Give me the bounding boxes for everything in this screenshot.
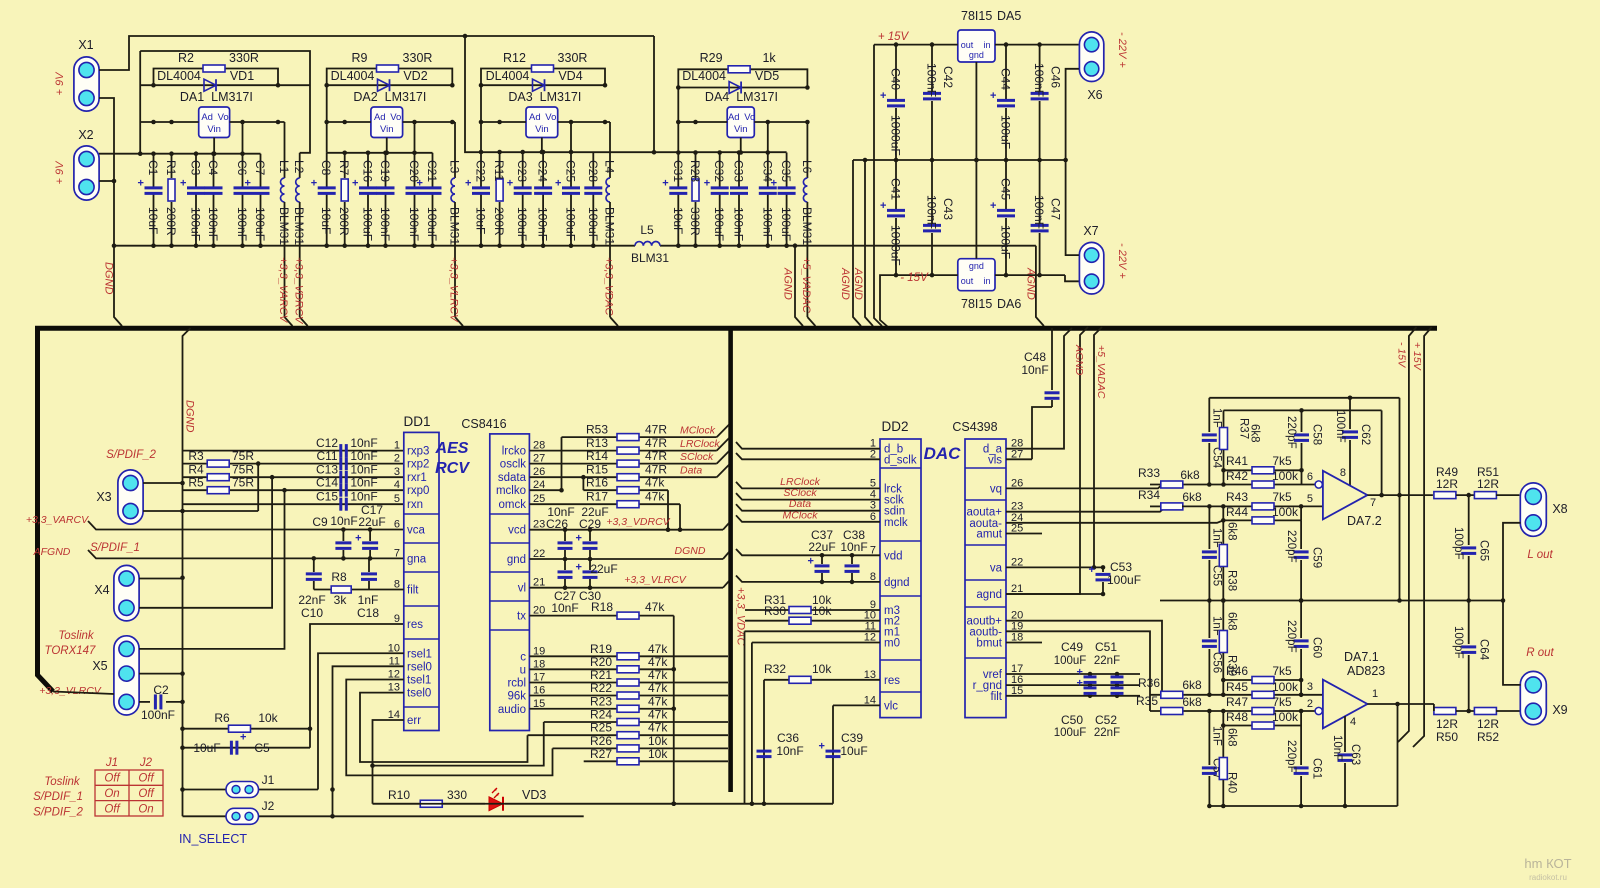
capacitor C32 xyxy=(704,153,729,249)
resistor R33 xyxy=(1138,466,1209,488)
svg-text:R29: R29 xyxy=(700,51,723,65)
svg-text:+5_VADAC: +5_VADAC xyxy=(800,257,812,313)
svg-text:R14: R14 xyxy=(586,449,608,463)
svg-text:C36: C36 xyxy=(777,731,799,745)
svg-text:100nF: 100nF xyxy=(760,207,774,241)
capacitor C41 xyxy=(880,160,905,275)
svg-text:mclko: mclko xyxy=(496,485,526,497)
capacitor C63 xyxy=(1331,716,1361,808)
capacitor C1 xyxy=(138,154,163,248)
svg-text:vl: vl xyxy=(518,583,526,595)
svg-text:Off: Off xyxy=(104,803,121,815)
svg-text:R21: R21 xyxy=(590,668,612,682)
capacitor C53 xyxy=(1089,560,1142,596)
svg-text:100uF: 100uF xyxy=(999,115,1013,149)
svg-text:X1: X1 xyxy=(78,38,93,52)
svg-text:m0: m0 xyxy=(884,638,900,650)
resistor R15 xyxy=(529,463,729,481)
svg-text:220pF: 220pF xyxy=(1285,416,1297,449)
wire +15V rail xyxy=(874,45,882,326)
svg-text:agnd: agnd xyxy=(976,589,1002,601)
svg-text:R18: R18 xyxy=(591,600,613,614)
svg-text:R13: R13 xyxy=(586,436,608,450)
wire SClock row xyxy=(736,487,880,500)
svg-text:R38: R38 xyxy=(1225,570,1237,591)
wire Vo drop DA1 xyxy=(240,120,245,154)
svg-text:aoutb-: aoutb- xyxy=(969,626,1002,638)
label +15V xyxy=(878,31,910,43)
svg-text:Off: Off xyxy=(138,773,155,785)
wire X4.1 xyxy=(139,578,183,580)
svg-text:100nF: 100nF xyxy=(536,207,550,241)
svg-text:R7: R7 xyxy=(337,160,351,176)
capacitor C55 xyxy=(1202,506,1223,602)
svg-text:R46: R46 xyxy=(1226,664,1248,678)
jumper J2 xyxy=(183,799,584,824)
inductor L5 xyxy=(631,223,669,265)
resistor R13 xyxy=(529,436,729,454)
svg-text:C35: C35 xyxy=(779,160,793,182)
svg-text:22nF: 22nF xyxy=(298,593,325,607)
svg-text:R43: R43 xyxy=(1226,490,1248,504)
svg-text:radiokot.ru: radiokot.ru xyxy=(1529,873,1567,882)
wire X4.2 xyxy=(139,475,274,608)
svg-text:R27: R27 xyxy=(590,747,612,761)
svg-text:VD3: VD3 xyxy=(522,788,546,802)
svg-text:C48: C48 xyxy=(1024,350,1046,364)
svg-text:330R: 330R xyxy=(403,51,433,65)
capacitor C35 xyxy=(771,153,796,249)
svg-text:C49: C49 xyxy=(1061,640,1083,654)
wire X2.2 to DGND xyxy=(99,180,114,182)
svg-text:10k: 10k xyxy=(258,711,278,725)
svg-text:96k: 96k xyxy=(507,691,526,703)
wire DA5 out line xyxy=(874,42,958,47)
svg-text:R23: R23 xyxy=(590,694,612,708)
label DGND xyxy=(103,262,115,294)
svg-text:C12: C12 xyxy=(316,436,338,450)
svg-text:CS8416: CS8416 xyxy=(461,417,506,431)
svg-text:R17: R17 xyxy=(586,490,608,504)
resistor R7 xyxy=(337,153,351,248)
svg-text:200R: 200R xyxy=(164,207,178,236)
svg-text:rsel0: rsel0 xyxy=(407,661,432,673)
svg-text:in: in xyxy=(983,40,990,50)
wire mclko pin24 row xyxy=(529,489,561,491)
wire R18 drop xyxy=(671,616,676,806)
wire vcd row xyxy=(529,523,729,532)
svg-text:100nF: 100nF xyxy=(235,207,249,241)
svg-text:DA2: DA2 xyxy=(353,90,377,104)
diode VD5 xyxy=(676,69,810,94)
svg-text:C33: C33 xyxy=(732,160,746,182)
svg-text:L5: L5 xyxy=(640,223,654,237)
svg-text:AGND: AGND xyxy=(1073,344,1085,376)
svg-text:C39: C39 xyxy=(841,731,863,745)
svg-text:2: 2 xyxy=(1307,698,1313,710)
svg-text:47k: 47k xyxy=(648,721,668,735)
capacitor C26 xyxy=(546,505,575,559)
capacitor C46 xyxy=(1031,45,1063,160)
svg-text:100uF: 100uF xyxy=(712,207,726,241)
svg-text:+: + xyxy=(662,178,668,190)
wire Vo drop DA4 xyxy=(766,120,771,153)
svg-text:osclk: osclk xyxy=(500,459,526,471)
svg-text:6k8: 6k8 xyxy=(1249,424,1261,443)
jumper J1 xyxy=(183,773,319,798)
resistor R20 xyxy=(529,655,673,673)
resistor R42 xyxy=(1209,469,1315,488)
svg-text:4: 4 xyxy=(1350,716,1356,728)
wire gnd row xyxy=(529,552,729,561)
svg-text:L4: L4 xyxy=(603,160,617,174)
svg-text:10nF: 10nF xyxy=(840,540,867,554)
capacitor C52 xyxy=(1111,688,1124,694)
wire R53 tap xyxy=(559,437,564,492)
wire R16 drop xyxy=(666,490,671,532)
svg-text:Vo: Vo xyxy=(218,112,229,123)
svg-text:DA5: DA5 xyxy=(997,9,1021,23)
capacitor C47 xyxy=(1031,160,1063,275)
svg-text:AGND: AGND xyxy=(1025,267,1037,300)
svg-text:C62: C62 xyxy=(1359,424,1371,445)
resistor R11 xyxy=(492,152,506,248)
resistor R34 xyxy=(1138,488,1209,510)
wire Vin drop DA3 xyxy=(540,138,545,155)
wire amut row xyxy=(1006,533,1042,535)
connector X2 xyxy=(74,128,99,200)
resistor R21 xyxy=(529,668,728,686)
label +3,3_VDAC xyxy=(603,257,615,315)
capacitor C45 xyxy=(990,160,1015,275)
resistor R3 xyxy=(183,449,404,467)
capacitor C15 xyxy=(316,490,378,511)
svg-text:Vin: Vin xyxy=(380,124,394,135)
svg-text:On: On xyxy=(138,803,153,815)
svg-text:out: out xyxy=(961,40,974,50)
svg-text:LM317I: LM317I xyxy=(211,90,253,104)
svg-text:AGND: AGND xyxy=(839,267,851,300)
svg-text:Ad: Ad xyxy=(728,112,740,123)
wire R24 link xyxy=(370,722,544,768)
svg-text:L2: L2 xyxy=(292,160,306,174)
resistor R37 xyxy=(1220,410,1261,486)
svg-text:220pF: 220pF xyxy=(1285,530,1297,563)
svg-text:1000uF: 1000uF xyxy=(889,115,903,156)
svg-text:Vin: Vin xyxy=(734,124,748,135)
svg-text:100nF: 100nF xyxy=(1032,63,1046,97)
wire block1 left vertical xyxy=(138,51,143,156)
svg-text:+3,3_VDAC: +3,3_VDAC xyxy=(603,257,615,315)
capacitor C21 xyxy=(417,153,442,248)
svg-text:+: + xyxy=(555,178,561,190)
svg-text:AES: AES xyxy=(435,440,469,457)
svg-text:10uF: 10uF xyxy=(840,744,867,758)
wire mid rail xyxy=(1160,598,1505,603)
svg-text:100nF: 100nF xyxy=(925,195,939,229)
label +3,3_VDAC middle xyxy=(735,587,747,645)
svg-text:220pF: 220pF xyxy=(1285,620,1297,653)
svg-text:DAC: DAC xyxy=(924,444,962,463)
svg-text:10uF: 10uF xyxy=(146,207,160,234)
capacitor C34 xyxy=(759,153,777,249)
svg-text:+: + xyxy=(880,90,886,102)
svg-text:DGND: DGND xyxy=(184,400,196,432)
svg-text:AFGND: AFGND xyxy=(33,546,71,558)
svg-text:C8: C8 xyxy=(319,160,333,176)
svg-text:6k8: 6k8 xyxy=(1182,490,1202,504)
svg-text:J1: J1 xyxy=(262,773,275,787)
svg-text:47k: 47k xyxy=(648,681,668,695)
label +5_VADAC dd2 xyxy=(1095,345,1107,399)
svg-text:R22: R22 xyxy=(590,681,612,695)
svg-text:IN_SELECT: IN_SELECT xyxy=(179,832,247,846)
svg-text:+3,3_VLRCV: +3,3_VLRCV xyxy=(624,574,687,586)
svg-text:DA1: DA1 xyxy=(180,90,204,104)
inductor L4 xyxy=(603,122,619,326)
svg-text:R44: R44 xyxy=(1226,505,1248,519)
svg-text:rsel1: rsel1 xyxy=(407,648,432,660)
wire aoutb+ row xyxy=(1006,621,1162,695)
wire X8.2 xyxy=(1503,523,1521,601)
svg-text:DA3: DA3 xyxy=(508,90,532,104)
svg-text:C31: C31 xyxy=(671,160,685,182)
svg-text:C24: C24 xyxy=(536,160,550,182)
svg-text:+: + xyxy=(311,178,317,190)
resistor R43 xyxy=(1207,490,1323,510)
svg-text:1: 1 xyxy=(394,440,400,452)
svg-text:100nF: 100nF xyxy=(206,207,220,241)
svg-text:+: + xyxy=(465,178,471,190)
capacitor C6 xyxy=(234,154,252,248)
svg-text:R28: R28 xyxy=(688,160,702,182)
svg-text:22uF: 22uF xyxy=(808,540,835,554)
op-amp DA7.2 xyxy=(1307,467,1382,528)
svg-text:R11: R11 xyxy=(492,160,506,181)
svg-text:R36: R36 xyxy=(1138,676,1160,690)
wire AGND mid rail xyxy=(853,158,1066,163)
svg-text:rxp0: rxp0 xyxy=(407,485,429,497)
svg-text:out: out xyxy=(961,276,974,286)
wire r_gnd row xyxy=(1006,683,1140,688)
svg-text:res: res xyxy=(884,675,900,687)
resistor R24 xyxy=(544,708,728,726)
svg-text:J2: J2 xyxy=(139,757,153,769)
label +3,3_VARCV xyxy=(277,257,289,324)
svg-text:+ 15V: + 15V xyxy=(878,31,910,43)
svg-text:+: + xyxy=(355,533,361,545)
svg-text:DL4004: DL4004 xyxy=(331,69,375,83)
svg-text:100uF: 100uF xyxy=(1107,573,1141,587)
resistor R2 xyxy=(154,51,279,85)
label C49 C51 xyxy=(1054,640,1120,667)
svg-text:R8: R8 xyxy=(331,570,347,584)
capacitor C7 xyxy=(245,154,270,248)
svg-text:C43: C43 xyxy=(941,198,955,220)
svg-text:m1: m1 xyxy=(884,626,900,638)
label R out xyxy=(1526,647,1554,659)
svg-text:R41: R41 xyxy=(1226,454,1248,468)
label AGND b xyxy=(852,267,864,300)
label AES RCV xyxy=(435,440,471,477)
svg-text:DL4004: DL4004 xyxy=(682,69,726,83)
wire DA7.1 out xyxy=(1367,702,1434,707)
svg-text:100pF: 100pF xyxy=(1452,527,1464,560)
wire rxp3 row xyxy=(183,450,404,452)
svg-text:C60: C60 xyxy=(1311,637,1323,658)
svg-text:22uF: 22uF xyxy=(358,515,385,529)
wire filt row xyxy=(1006,694,1140,699)
svg-text:+ 9V: + 9V xyxy=(54,160,66,185)
svg-text:R48: R48 xyxy=(1226,710,1248,724)
label AGND dd2 xyxy=(1073,344,1085,376)
svg-text:Vo: Vo xyxy=(390,112,401,123)
capacitor C18 xyxy=(357,558,379,620)
svg-text:L6: L6 xyxy=(800,160,814,174)
svg-text:X2: X2 xyxy=(78,128,93,142)
svg-text:C10: C10 xyxy=(301,606,323,620)
label +3,3_VLRCV row xyxy=(624,574,687,586)
resistor R32 xyxy=(764,662,880,683)
wire d_sclk row xyxy=(736,453,880,459)
resistor R53 xyxy=(562,423,730,441)
svg-text:gna: gna xyxy=(407,553,427,565)
svg-text:100uF: 100uF xyxy=(999,225,1013,259)
svg-text:DD2: DD2 xyxy=(881,419,908,434)
svg-text:C19: C19 xyxy=(378,160,392,182)
wire R15 tap xyxy=(581,475,586,490)
svg-text:C29: C29 xyxy=(579,517,601,531)
resistor R16 xyxy=(583,476,668,494)
svg-text:X5: X5 xyxy=(92,659,107,673)
wire block1 input rail xyxy=(99,151,261,156)
svg-text:AGND: AGND xyxy=(852,267,864,300)
svg-text:7k5: 7k5 xyxy=(1272,454,1292,468)
svg-text:R34: R34 xyxy=(1138,488,1160,502)
svg-text:+: + xyxy=(180,178,186,190)
svg-text:100k: 100k xyxy=(1272,469,1299,483)
wire DA5 gnd xyxy=(974,62,979,162)
label AGND x1035 xyxy=(1025,267,1037,300)
capacitor C36 xyxy=(757,731,804,758)
wire X7.1 xyxy=(1066,160,1079,255)
wire AGND drop b xyxy=(865,160,873,326)
svg-text:gnd: gnd xyxy=(507,554,526,566)
svg-text:47k: 47k xyxy=(648,668,668,682)
capacitor C48 xyxy=(1021,328,1059,459)
svg-text:R40: R40 xyxy=(1225,772,1237,793)
label DGND row xyxy=(675,545,706,557)
svg-text:R53: R53 xyxy=(586,423,608,437)
capacitor C22 xyxy=(465,152,490,248)
svg-text:C44: C44 xyxy=(999,68,1013,90)
svg-text:mclk: mclk xyxy=(884,517,908,529)
svg-text:3: 3 xyxy=(394,466,400,478)
svg-text:va: va xyxy=(990,562,1003,574)
label +3,3_VDRCV xyxy=(292,257,304,325)
wire block1 top line xyxy=(140,51,310,153)
svg-text:7k5: 7k5 xyxy=(1272,490,1292,504)
svg-text:100pF: 100pF xyxy=(1452,626,1464,659)
capacitor C43 xyxy=(923,160,955,275)
svg-text:10k: 10k xyxy=(648,734,668,748)
svg-text:R45: R45 xyxy=(1226,680,1248,694)
wire top rail drop to block4 xyxy=(652,36,657,155)
wire Vin drop DA2 xyxy=(384,138,389,156)
resistor R46 xyxy=(1223,664,1301,684)
svg-text:C41: C41 xyxy=(889,178,903,200)
label DD1 xyxy=(403,414,430,429)
svg-text:L3: L3 xyxy=(448,160,462,174)
svg-text:C63: C63 xyxy=(1349,744,1361,765)
svg-text:C26: C26 xyxy=(546,517,568,531)
svg-text:DA6: DA6 xyxy=(997,297,1021,311)
svg-text:10nF: 10nF xyxy=(1331,735,1343,761)
svg-text:err: err xyxy=(407,715,421,727)
svg-text:vcd: vcd xyxy=(508,525,526,537)
svg-text:5: 5 xyxy=(1307,493,1313,505)
svg-text:22uF: 22uF xyxy=(590,562,617,576)
svg-text:+ 9V: + 9V xyxy=(54,71,66,96)
svg-text:C61: C61 xyxy=(1311,758,1323,779)
svg-text:47k: 47k xyxy=(645,600,665,614)
capacitor C49 xyxy=(1077,667,1097,683)
svg-text:Vo: Vo xyxy=(744,112,755,123)
wire agnd ext xyxy=(1006,593,1103,595)
label S/PDIF_2 xyxy=(106,449,156,461)
resistor R29 xyxy=(678,51,807,88)
svg-text:omck: omck xyxy=(499,499,527,511)
svg-text:22nF: 22nF xyxy=(1094,727,1120,739)
IC DD2 CS4398 left box xyxy=(880,439,921,718)
resistor R49 xyxy=(1434,465,1458,499)
resistor R5 xyxy=(183,476,404,494)
svg-text:10nF: 10nF xyxy=(350,449,377,463)
svg-text:C56: C56 xyxy=(1210,652,1222,673)
svg-text:R37: R37 xyxy=(1238,418,1250,439)
svg-text:R24: R24 xyxy=(590,708,612,722)
wire AGND drop x1035 xyxy=(1036,246,1044,326)
svg-text:Toslink: Toslink xyxy=(44,776,81,788)
svg-text:Vin: Vin xyxy=(207,124,221,135)
wire vl row xyxy=(529,581,729,590)
wire block3 rail dots xyxy=(479,150,574,155)
wire res link xyxy=(308,624,404,748)
capacitor C25 xyxy=(555,152,580,248)
svg-text:7: 7 xyxy=(1370,497,1376,509)
svg-text:C15: C15 xyxy=(316,490,338,504)
svg-text:+3,3_VDRCV: +3,3_VDRCV xyxy=(292,257,304,325)
capacitor C65 xyxy=(1452,495,1490,600)
svg-text:Vin: Vin xyxy=(535,124,549,135)
svg-text:75R: 75R xyxy=(232,476,254,490)
capacitor C23 xyxy=(507,152,532,248)
svg-text:C50: C50 xyxy=(1061,713,1083,727)
DD1 left pin names xyxy=(388,440,432,727)
label CS4398 xyxy=(952,420,997,434)
svg-text:SClock: SClock xyxy=(680,451,714,463)
svg-text:vq: vq xyxy=(990,483,1002,495)
svg-text:C18: C18 xyxy=(357,606,379,620)
wire aouta+ row xyxy=(1006,506,1166,511)
svg-text:1000uF: 1000uF xyxy=(889,225,903,266)
svg-text:tsel1: tsel1 xyxy=(407,675,431,687)
svg-text:10uF: 10uF xyxy=(319,207,333,234)
wire Ad line DA4 xyxy=(676,120,727,125)
wire Vo drop DA2 xyxy=(412,120,417,153)
capacitor C33 xyxy=(730,153,748,249)
svg-text:tx: tx xyxy=(517,611,526,623)
